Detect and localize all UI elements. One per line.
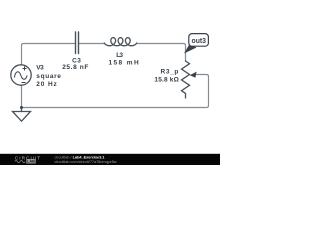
svg-text:L3: L3 [116,52,123,59]
svg-text:158 mH: 158 mH [109,59,139,66]
svg-text:25.8 nF: 25.8 nF [62,64,88,71]
svg-text:square: square [36,73,61,80]
svg-text:R3_p: R3_p [161,69,179,76]
svg-text:LAB: LAB [27,159,35,164]
svg-text:circuitlab / Lab4_Exercise3.1: circuitlab / Lab4_Exercise3.1 [55,155,105,159]
svg-text:15.8 kΩ: 15.8 kΩ [154,76,178,83]
svg-text:circuitlab.com/circuit/77a78um: circuitlab.com/circuit/77a78umqpz5w [55,160,117,164]
svg-text:V3: V3 [36,65,44,72]
svg-text:20 Hz: 20 Hz [36,81,57,88]
svg-text:out3: out3 [192,36,207,45]
